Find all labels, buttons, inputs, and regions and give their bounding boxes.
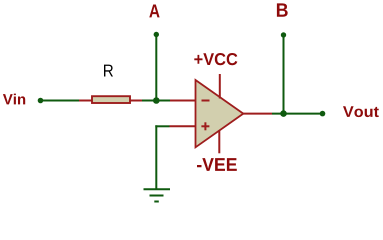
junction node B on output wire <box>280 110 287 117</box>
pin op-amp output <box>243 113 273 115</box>
op-amp minus symbol <box>202 100 210 102</box>
power label +VCC <box>194 53 237 65</box>
wire output to terminal <box>272 113 323 115</box>
terminal label Vin <box>3 94 25 105</box>
ground symbol <box>144 189 171 201</box>
output terminal dot <box>320 111 326 117</box>
node label A <box>149 5 159 18</box>
pin op-amp V- bottom <box>218 130 220 153</box>
power label -VEE <box>197 158 237 171</box>
terminal label Vout <box>343 106 379 117</box>
pin op-amp inverting input <box>170 100 196 102</box>
resistor R body <box>92 96 130 103</box>
node A dot <box>154 32 159 37</box>
wire plus input down to ground <box>155 125 157 189</box>
pin resistor right <box>131 100 143 102</box>
input terminal dot <box>38 98 44 104</box>
pin op-amp V+ top <box>219 74 221 99</box>
wire node B vertical <box>283 35 285 114</box>
resistor value label R <box>104 65 113 77</box>
op-amp plus symbol <box>201 122 209 130</box>
op-amp U1 body <box>196 80 244 147</box>
pin resistor left <box>79 100 92 102</box>
pin op-amp non-inverting input <box>170 125 197 127</box>
node B dot <box>281 32 286 37</box>
junction node A on input wire <box>153 97 160 104</box>
node label B <box>277 3 288 16</box>
wire resistor to junction A <box>142 100 170 102</box>
wire Vin to resistor <box>42 100 79 102</box>
wire plus input horizontal <box>155 125 169 127</box>
wire node A vertical <box>155 35 157 101</box>
